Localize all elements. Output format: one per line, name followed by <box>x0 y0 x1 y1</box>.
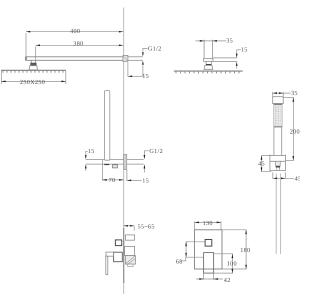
svg-text:15: 15 <box>88 148 95 155</box>
dim 42 <box>196 274 231 284</box>
svg-text:400: 400 <box>70 28 80 35</box>
dim 68 <box>176 242 205 266</box>
dim 380 <box>36 45 124 60</box>
svg-text:15: 15 <box>142 177 149 184</box>
wall flange (outlet) <box>124 154 127 169</box>
dim 55~65 <box>124 223 155 230</box>
svg-text:130: 130 <box>203 220 213 227</box>
in-wall elbow <box>125 235 134 240</box>
arm flange (front) <box>204 58 213 61</box>
shower arm (side) <box>26 57 123 61</box>
dim 45 vertical <box>258 156 271 172</box>
dim 130 <box>195 220 221 230</box>
arm (front) <box>204 40 213 59</box>
hand shower head cap <box>273 97 284 104</box>
G1/2 label bottom <box>144 148 163 172</box>
dim 15 (bottom pipe) <box>127 170 149 185</box>
svg-text:55~65: 55~65 <box>138 223 155 230</box>
handle square <box>204 253 214 274</box>
ball joint (front) <box>204 61 213 69</box>
svg-text:68: 68 <box>176 258 183 265</box>
dim 250X250 <box>1 71 66 84</box>
hose <box>276 174 280 255</box>
svg-text:G1/2: G1/2 <box>148 45 162 52</box>
wall line segment <box>123 228 125 283</box>
head plate (front) <box>174 71 243 73</box>
hand shower handle (side) <box>105 91 110 161</box>
svg-text:380: 380 <box>73 41 83 48</box>
svg-text:35: 35 <box>291 90 298 97</box>
svg-text:G1/2: G1/2 <box>149 148 163 155</box>
svg-text:180: 180 <box>240 247 250 254</box>
outlet pipe lines <box>86 160 144 165</box>
holder box <box>112 165 117 168</box>
connector block <box>270 155 286 171</box>
dim 45 horizontal <box>273 172 302 182</box>
dim 15 (top pipe) <box>128 62 149 80</box>
ball joint (side) <box>29 60 37 70</box>
dim 100 <box>214 254 237 273</box>
dim 15 (front, joint height) <box>213 46 248 68</box>
svg-text:200: 200 <box>290 129 300 136</box>
svg-text:15: 15 <box>142 73 149 80</box>
dim 180 <box>222 230 250 269</box>
hand shower handle (front) <box>274 127 282 155</box>
mixer handle (side) <box>114 252 123 262</box>
dim 15 (left leader) <box>85 148 95 171</box>
diverter square <box>205 240 212 247</box>
holder dash <box>104 164 109 165</box>
wall flange (side) <box>123 55 128 61</box>
dim 400 <box>26 32 123 57</box>
svg-text:15: 15 <box>241 46 248 53</box>
valve body <box>125 246 136 266</box>
G1/2 label top <box>142 45 162 76</box>
svg-text:45: 45 <box>295 176 300 183</box>
svg-text:35: 35 <box>226 38 233 45</box>
diverter knob (side) <box>115 240 123 246</box>
svg-text:42: 42 <box>224 277 231 284</box>
svg-text:100: 100 <box>227 261 237 268</box>
head plate (side) <box>1 70 66 73</box>
mixer plate <box>195 230 223 269</box>
handle lever <box>106 252 114 275</box>
pipe stub (side) <box>128 57 143 61</box>
dim 35 (hand shower) <box>273 90 298 97</box>
svg-text:250X250: 250X250 <box>20 79 45 86</box>
hose cone <box>276 161 281 170</box>
svg-text:70: 70 <box>109 177 116 184</box>
svg-text:45: 45 <box>258 161 265 168</box>
spray face <box>274 104 282 128</box>
dim 70 <box>102 160 123 185</box>
wall centerline <box>123 8 125 295</box>
dim 200 <box>283 98 300 161</box>
dim 35 (arm width) <box>196 38 233 45</box>
